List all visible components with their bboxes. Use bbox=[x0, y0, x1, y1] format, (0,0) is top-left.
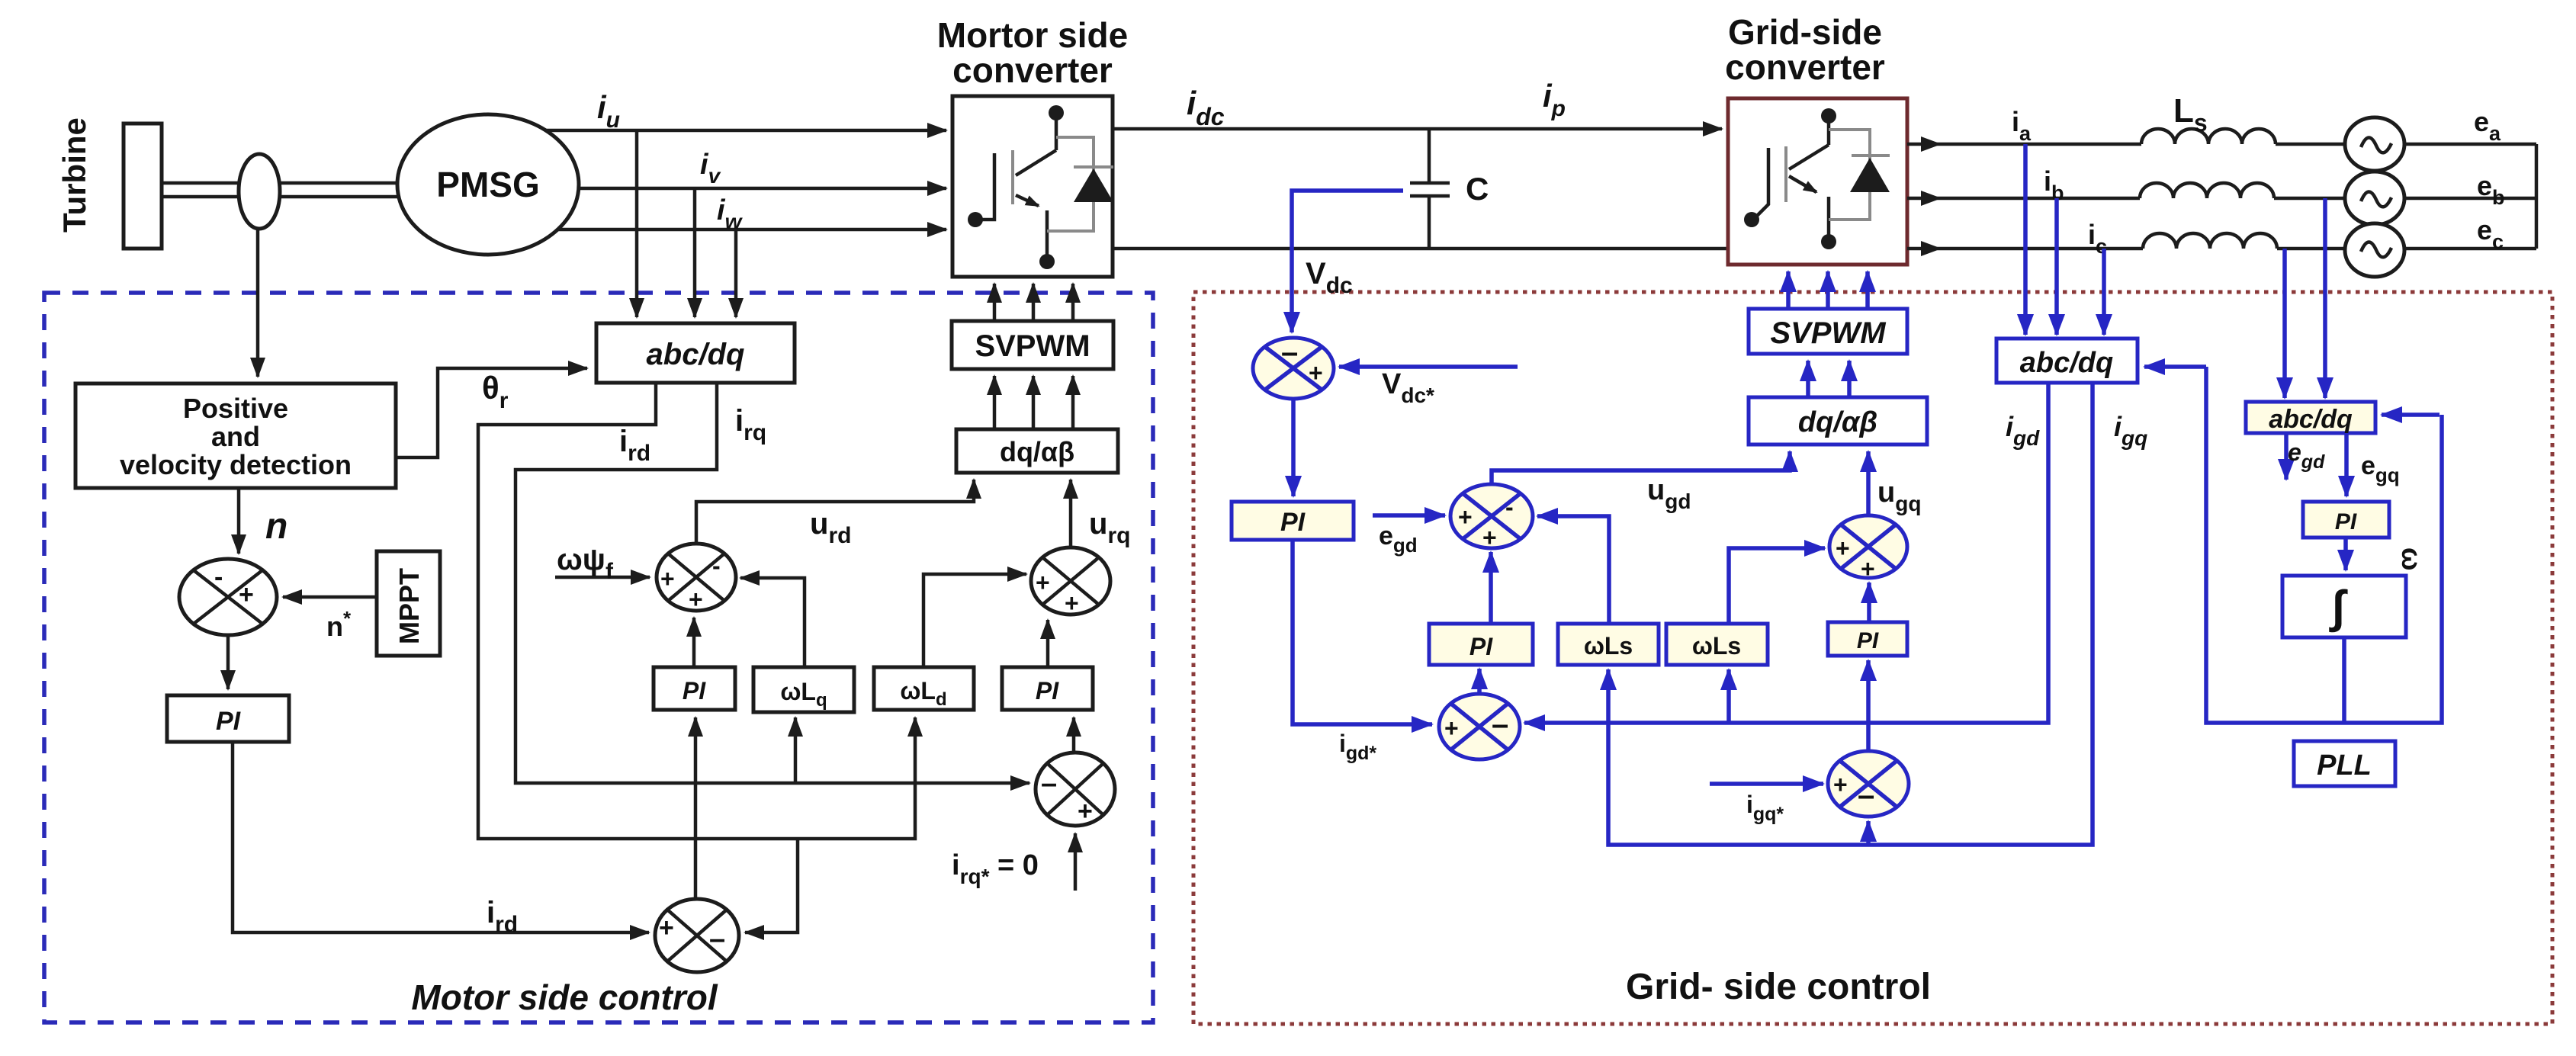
inductor Ls c bbox=[2143, 233, 2277, 249]
grid side converter U2 bbox=[1728, 98, 1907, 265]
summing node speed bbox=[179, 559, 277, 635]
wire PLL angle to abc/dq2 bbox=[2382, 412, 2439, 417]
capacitor C bbox=[1428, 129, 1431, 183]
svg-text:dq/αβ: dq/αβ bbox=[1000, 436, 1074, 467]
svg-text:+: + bbox=[1309, 359, 1323, 387]
svg-text:–: – bbox=[709, 923, 725, 955]
dc link top rail bbox=[1113, 127, 1722, 131]
wire ird from abc/dq bbox=[478, 383, 915, 839]
svg-text:dq/αβ: dq/αβ bbox=[1798, 406, 1877, 438]
svg-text:Grid-side: Grid-side bbox=[1728, 12, 1882, 52]
diode D2 wires bbox=[1829, 130, 1870, 220]
wire wLd to summing urq bbox=[923, 574, 1026, 667]
svg-text:ω: ω bbox=[2396, 547, 2427, 570]
svg-text:and: and bbox=[211, 421, 260, 452]
svg-text:-: - bbox=[712, 552, 721, 579]
diode D1 bbox=[1074, 165, 1113, 169]
grid side control dotted frame bbox=[1193, 292, 2552, 1024]
svg-text:+: + bbox=[1078, 797, 1093, 826]
wire ic drop bbox=[2102, 249, 2106, 335]
wire PI-R to summing urq bbox=[1046, 620, 1050, 667]
svg-text:+: + bbox=[660, 565, 675, 592]
wires SVPWM to converter bbox=[993, 284, 997, 321]
turbine blade bbox=[124, 124, 162, 249]
svg-text:-: - bbox=[214, 563, 223, 592]
svg-text:+: + bbox=[1458, 503, 1473, 531]
svg-text:abc/dq: abc/dq bbox=[2020, 347, 2113, 379]
wire PLL angle to abc/dq1 bbox=[2144, 364, 2206, 369]
svg-text:converter: converter bbox=[1725, 47, 1885, 87]
wLq box bbox=[753, 667, 854, 712]
svg-text:PI: PI bbox=[2335, 509, 2357, 534]
grid bus bbox=[2535, 144, 2539, 249]
wire urd bbox=[696, 480, 974, 544]
wire igd branch to wLs2 bbox=[1726, 669, 1731, 723]
svg-text:+: + bbox=[1482, 524, 1497, 551]
summing node ird bbox=[655, 899, 739, 972]
PI current q box bbox=[1002, 667, 1093, 710]
wire irq from abc/dq bbox=[516, 383, 1029, 783]
svg-text:+: + bbox=[1065, 589, 1079, 617]
MPPT box bbox=[377, 551, 440, 656]
wire to speed PI bbox=[226, 635, 230, 689]
SVPWM motor box bbox=[952, 321, 1113, 369]
PI pll box bbox=[2303, 502, 2389, 538]
svg-text:+: + bbox=[1836, 534, 1850, 562]
inductor Ls a bbox=[2141, 129, 2276, 144]
svg-text:converter: converter bbox=[952, 50, 1113, 90]
svg-text:Motor side control: Motor side control bbox=[411, 977, 718, 1017]
wire iw drop to abc/dq bbox=[734, 229, 738, 317]
source ea bbox=[2345, 117, 2404, 171]
abc/dq motor box bbox=[596, 323, 795, 383]
wire PI-L to summing urd bbox=[692, 618, 696, 667]
wire integrator out bbox=[2342, 637, 2346, 723]
summing node ugq bbox=[1829, 515, 1907, 578]
svg-text:–: – bbox=[1281, 335, 1298, 369]
wire igq branch to summing igq bbox=[1866, 821, 1871, 845]
svg-text:Turbine: Turbine bbox=[56, 117, 92, 233]
wire wLq to summing urd bbox=[740, 578, 805, 667]
PMSG generator bbox=[397, 114, 579, 255]
coupling bbox=[239, 154, 280, 229]
PI speed box bbox=[167, 695, 289, 742]
wire n* bbox=[283, 595, 377, 599]
svg-text:+: + bbox=[1444, 714, 1459, 742]
svg-text:C: C bbox=[1466, 171, 1489, 207]
wire ia drop bbox=[2023, 144, 2028, 335]
source ec bbox=[2345, 223, 2404, 277]
wLs2 box bbox=[1666, 624, 1768, 665]
dq/ab grid box bbox=[1749, 397, 1927, 445]
wire PI-d to summing ugd bbox=[1489, 552, 1493, 624]
source eb bbox=[2345, 172, 2404, 225]
wire summing igq to PI-q bbox=[1866, 660, 1871, 751]
shaft bbox=[162, 181, 397, 185]
wire iv bbox=[579, 187, 946, 191]
igbt Q1 bbox=[1055, 116, 1058, 150]
wire PLL feedback loop bbox=[2206, 367, 2442, 723]
wire Vdc tap bbox=[1292, 191, 1403, 332]
PI current q grid box bbox=[1828, 622, 1907, 656]
svg-text:Positive: Positive bbox=[183, 393, 288, 424]
wire eb drop bbox=[2323, 198, 2327, 398]
positive and velocity detection box bbox=[75, 384, 396, 488]
svg-text:Mortor side: Mortor side bbox=[937, 15, 1128, 55]
svg-text:abc/dq: abc/dq bbox=[2269, 405, 2353, 434]
svg-text:PI: PI bbox=[1036, 677, 1059, 705]
svg-text:–: – bbox=[1041, 768, 1057, 800]
svg-text:ωLs: ωLs bbox=[1584, 632, 1633, 660]
wire egd out bbox=[2284, 433, 2289, 480]
summing node urq bbox=[1031, 547, 1110, 615]
svg-text:ωLs: ωLs bbox=[1692, 632, 1741, 660]
wire summing igd to PI-d bbox=[1477, 669, 1482, 694]
PLL box bbox=[2294, 741, 2395, 786]
wire wpsi_f bbox=[555, 576, 650, 579]
integrator box bbox=[2282, 576, 2406, 637]
wire ird branch to summing bbox=[745, 839, 798, 932]
svg-text:PI: PI bbox=[1469, 633, 1493, 660]
wire iw bbox=[557, 228, 946, 232]
wire summing to PI-L bbox=[694, 717, 698, 899]
summing node Vdc bbox=[1253, 338, 1334, 399]
wires dq/ab to SVPWM grid bbox=[1806, 361, 1810, 397]
inductor Ls b bbox=[2140, 183, 2274, 198]
summing node irq bbox=[1036, 753, 1115, 826]
abc/dq grid voltage box bbox=[2246, 402, 2375, 433]
wire PI to integrator bbox=[2343, 538, 2348, 570]
wires dq/ab to SVPWM bbox=[993, 376, 997, 429]
svg-text:PLL: PLL bbox=[2317, 749, 2372, 782]
wire igq feedback bbox=[1608, 383, 2093, 845]
svg-text:MPPT: MPPT bbox=[393, 568, 425, 644]
wLs1 box bbox=[1558, 624, 1659, 665]
wire iv drop to abc/dq bbox=[693, 188, 697, 317]
svg-text:+: + bbox=[1861, 555, 1875, 583]
abc/dq grid current box bbox=[1996, 339, 2138, 383]
diode D2 bbox=[1852, 154, 1890, 157]
svg-text:PI: PI bbox=[1857, 628, 1879, 653]
svg-text:SVPWM: SVPWM bbox=[1770, 316, 1887, 350]
phase wire b out bbox=[1907, 197, 1940, 201]
dq/ab motor box bbox=[956, 429, 1118, 473]
igbt Q2 bbox=[1827, 119, 1831, 145]
wire to PI vdc bbox=[1291, 399, 1296, 496]
svg-text:+: + bbox=[659, 913, 674, 942]
svg-text:+: + bbox=[1036, 569, 1050, 596]
wire igd* bbox=[1293, 540, 1432, 724]
wire speed sensing bbox=[256, 229, 260, 377]
svg-text:PMSG: PMSG bbox=[436, 165, 539, 204]
wLd box bbox=[874, 667, 974, 710]
phase wire a out bbox=[1907, 143, 1940, 146]
wire egq out bbox=[2344, 433, 2349, 496]
summing node igd bbox=[1439, 694, 1520, 759]
summing node urd bbox=[657, 544, 736, 611]
svg-text:+: + bbox=[239, 580, 254, 609]
svg-text:SVPWM: SVPWM bbox=[975, 329, 1090, 363]
wire egd to summing ugd bbox=[1373, 513, 1445, 518]
diode D1 wires bbox=[1047, 137, 1094, 231]
wire ea drop bbox=[2282, 249, 2287, 398]
wire wLs1 to summing ugd bbox=[1537, 516, 1609, 624]
svg-text:–: – bbox=[1492, 708, 1508, 741]
dc link bottom rail bbox=[1113, 247, 1728, 251]
wire urq bbox=[1069, 480, 1073, 547]
svg-text:PI: PI bbox=[216, 707, 242, 736]
SVPWM grid box bbox=[1749, 309, 1907, 354]
summing node ugd bbox=[1450, 484, 1533, 548]
svg-text:-: - bbox=[1505, 493, 1514, 521]
wire theta_r bbox=[396, 368, 587, 457]
wire summing irq to PI-R bbox=[1072, 717, 1076, 753]
phase wire c out bbox=[1907, 247, 1940, 251]
motor side converter U1 bbox=[952, 96, 1113, 277]
PI current d grid box bbox=[1429, 624, 1533, 665]
svg-text:+: + bbox=[1833, 771, 1848, 798]
motor side control dashed frame bbox=[44, 293, 1153, 1022]
svg-text:n: n bbox=[265, 506, 287, 547]
wire wLs2 to summing ugq bbox=[1729, 548, 1825, 624]
wire ugq bbox=[1866, 451, 1871, 515]
summing node igq bbox=[1828, 751, 1909, 817]
wire Vdc* bbox=[1339, 364, 1518, 369]
wire iu bbox=[546, 129, 946, 133]
wire igd feedback bbox=[1524, 383, 2048, 723]
svg-text:velocity detection: velocity detection bbox=[120, 449, 352, 480]
wire n bbox=[237, 488, 241, 554]
wire irq branch to wLq bbox=[794, 717, 798, 783]
svg-text:PI: PI bbox=[683, 677, 706, 705]
svg-text:abc/dq: abc/dq bbox=[647, 338, 745, 371]
svg-text:Grid- side control: Grid- side control bbox=[1626, 967, 1931, 1007]
wire ugd bbox=[1492, 451, 1790, 484]
wire igq* bbox=[1710, 782, 1823, 786]
PI vdc box bbox=[1232, 502, 1354, 540]
wire iu drop to abc/dq bbox=[635, 130, 639, 317]
svg-text:PI: PI bbox=[1280, 508, 1306, 537]
wire ird* reference bbox=[233, 742, 649, 932]
wires SVPWM to grid converter bbox=[1786, 271, 1791, 309]
wire PI-q to summing ugq bbox=[1867, 583, 1871, 622]
svg-text:–: – bbox=[1858, 778, 1874, 812]
PI current d box bbox=[654, 667, 735, 710]
svg-text:+: + bbox=[689, 586, 703, 613]
wire ib drop bbox=[2054, 198, 2059, 335]
wire irq* = 0 bbox=[1074, 833, 1078, 891]
